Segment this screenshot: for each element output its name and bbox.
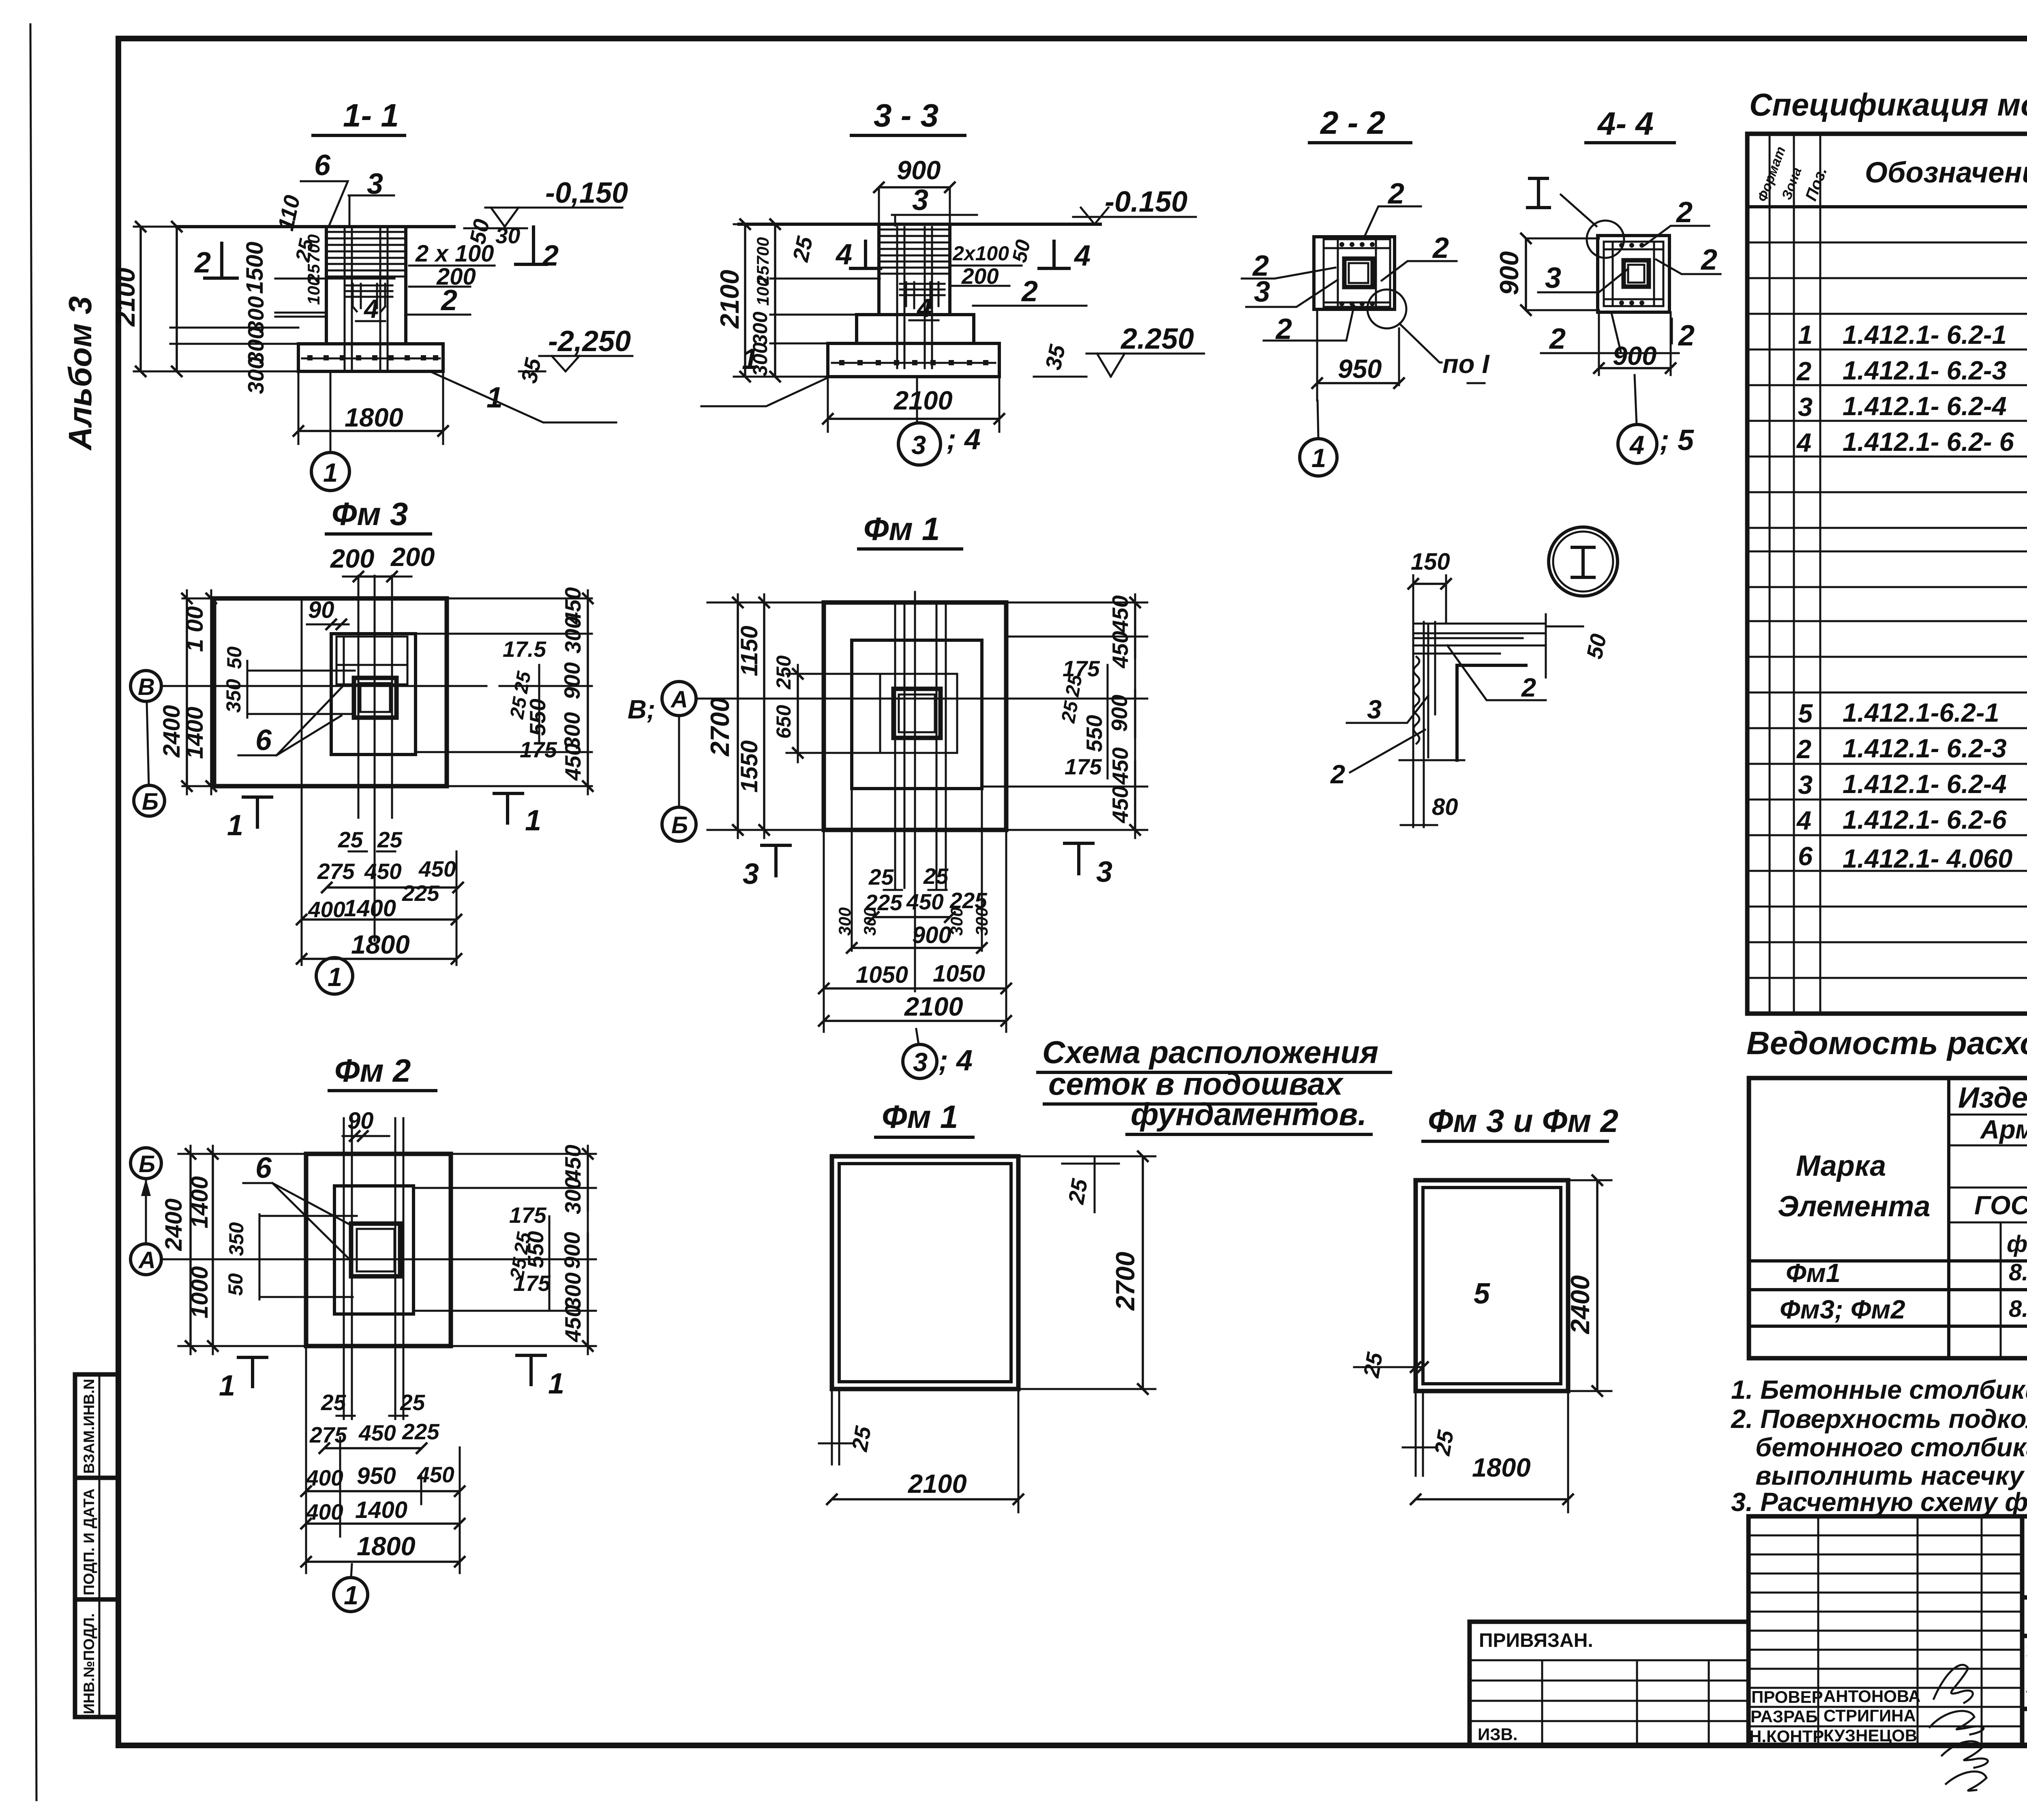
- svg-text:25: 25: [510, 669, 535, 695]
- specification table: [1747, 134, 2027, 1014]
- svg-text:-0.150: -0.150: [1105, 186, 1187, 218]
- svg-text:ф 6: ф 6: [2007, 1231, 2027, 1257]
- mesh C2 horizontals: [327, 232, 405, 277]
- svg-text:2: 2: [1549, 323, 1566, 355]
- left dim chains: [707, 594, 880, 838]
- svg-text:ПОДП. И ДАТА: ПОДП. И ДАТА: [81, 1489, 97, 1596]
- plan FM2: [131, 1053, 596, 1612]
- section 4-4: [1494, 105, 1721, 463]
- svg-text:1800: 1800: [345, 403, 403, 432]
- svg-text:8.4: 8.4: [2009, 1259, 2027, 1286]
- right ext lines: [416, 598, 592, 786]
- svg-text:1: 1: [1798, 320, 1813, 349]
- paper edge line: [30, 24, 36, 1800]
- svg-text:3: 3: [1798, 392, 1813, 422]
- svg-text:25: 25: [338, 827, 364, 852]
- svg-text:700: 700: [753, 237, 772, 266]
- svg-text:300: 300: [749, 311, 771, 345]
- section marks 1: [243, 797, 272, 827]
- mesh layout schema heading: [1038, 1034, 1391, 1134]
- signatures squiggle: [1930, 1665, 1988, 1790]
- svg-text:6: 6: [1798, 841, 1813, 871]
- svg-text:3: 3: [1798, 770, 1813, 800]
- pedestal: [334, 1186, 414, 1314]
- svg-text:5: 5: [1798, 699, 1813, 728]
- svg-text:1.412.1- 6.2-4: 1.412.1- 6.2-4: [1843, 391, 2007, 421]
- svg-text:30: 30: [495, 223, 521, 248]
- svg-text:ИНВ.№ПОДЛ.: ИНВ.№ПОДЛ.: [81, 1613, 97, 1714]
- svg-text:2. Поверхность подколонника в: 2. Поверхность подколонника в месте прим…: [1730, 1404, 2027, 1434]
- svg-text:175: 175: [509, 1203, 547, 1228]
- svg-text:3: 3: [1096, 856, 1112, 888]
- svg-text:Марка: Марка: [1796, 1150, 1886, 1182]
- svg-text:450: 450: [906, 889, 944, 914]
- svg-text:6: 6: [255, 724, 272, 757]
- svg-text:1.412.1- 6.2-4: 1.412.1- 6.2-4: [1843, 769, 2007, 799]
- axis circle 3: [916, 1029, 919, 1044]
- svg-text:2: 2: [194, 247, 211, 279]
- svg-text:350: 350: [222, 679, 245, 713]
- svg-text:по I: по I: [1442, 349, 1490, 379]
- svg-text:АНТОНОВА: АНТОНОВА: [1823, 1687, 1921, 1706]
- bottom dim 1800: [298, 371, 443, 444]
- svg-text:450: 450: [1108, 595, 1133, 633]
- squares: [1598, 236, 1669, 312]
- plan FM1: [628, 511, 1147, 1078]
- axis circle 1: [316, 958, 353, 994]
- svg-text:650: 650: [772, 705, 795, 739]
- footing: [298, 344, 443, 371]
- svg-text:Схема расположения: Схема расположения: [1042, 1034, 1378, 1070]
- svg-text:300: 300: [560, 616, 585, 654]
- title block: privyazan box: [1470, 1622, 1748, 1745]
- svg-text:1400: 1400: [186, 1176, 213, 1228]
- svg-text:25: 25: [321, 1390, 347, 1415]
- dim 25 bottom: [1403, 1391, 1437, 1476]
- svg-text:выполнить насечку глубиной ≥ 5: выполнить насечку глубиной ≥ 5 мм.: [1755, 1461, 2027, 1490]
- cup: [354, 678, 396, 718]
- squiggle hatch on mesh: [1414, 657, 1419, 744]
- svg-text:250: 250: [772, 655, 795, 690]
- svg-text:2х100: 2х100: [952, 242, 1009, 265]
- svg-text:1.412.1- 6.2-1: 1.412.1- 6.2-1: [1843, 320, 2007, 349]
- section 3-3: [701, 97, 1204, 465]
- svg-text:Спецификация монолитных фундам: Спецификация монолитных фундаментов: [1749, 87, 2027, 122]
- svg-text:900: 900: [897, 155, 941, 185]
- svg-text:ПРИВЯЗАН.: ПРИВЯЗАН.: [1479, 1630, 1593, 1651]
- svg-text:-0,150: -0,150: [545, 177, 628, 209]
- svg-text:3: 3: [913, 1047, 928, 1077]
- svg-text:3: 3: [1545, 262, 1561, 294]
- axis circle 1: [330, 373, 332, 452]
- svg-text:1.412.1- 6.2-6: 1.412.1- 6.2-6: [1843, 805, 2007, 834]
- svg-text:2100: 2100: [111, 268, 140, 327]
- stirrup mesh 4: [345, 284, 392, 311]
- svg-text:1400: 1400: [182, 707, 208, 759]
- svg-text:ГОСТ 5781-82: ГОСТ 5781-82: [1974, 1190, 2027, 1220]
- svg-text:Фм1: Фм1: [1786, 1258, 1841, 1288]
- left stamp boxes: [75, 1374, 118, 1717]
- svg-text:Фм 3: Фм 3: [332, 496, 408, 532]
- svg-text:450: 450: [1108, 747, 1133, 785]
- svg-text:900: 900: [1107, 695, 1132, 732]
- node circle with I: [1549, 527, 1618, 596]
- svg-text:300: 300: [243, 357, 268, 394]
- mesh corner detail: [1413, 622, 1435, 760]
- svg-text:1: 1: [328, 962, 342, 992]
- svg-text:450: 450: [560, 1145, 585, 1182]
- cup: [894, 689, 941, 738]
- svg-text:бетонного столбика тщательно о: бетонного столбика тщательно очистить и: [1755, 1432, 2027, 1462]
- svg-text:3: 3: [912, 184, 928, 217]
- axis line: [697, 698, 1086, 700]
- svg-text:Б: Б: [142, 789, 159, 815]
- svg-text:Фм 3 и Фм 2: Фм 3 и Фм 2: [1428, 1103, 1618, 1139]
- svg-text:3: 3: [1367, 695, 1382, 724]
- svg-text:350: 350: [225, 1222, 248, 1256]
- svg-text:25: 25: [1057, 699, 1082, 725]
- svg-text:80: 80: [1432, 794, 1458, 820]
- svg-text:2: 2: [1796, 356, 1811, 386]
- svg-text:550: 550: [523, 1231, 548, 1268]
- svg-text:450: 450: [417, 1462, 454, 1487]
- svg-text:1. Бетонные столбики условно н: 1. Бетонные столбики условно не показаны…: [1731, 1375, 2027, 1404]
- svg-text:50: 50: [223, 646, 246, 669]
- svg-text:400: 400: [306, 1499, 343, 1524]
- svg-text:В: В: [138, 674, 155, 700]
- column: [879, 224, 950, 315]
- svg-text:950: 950: [1338, 354, 1382, 384]
- mesh in pedestal: [336, 637, 407, 684]
- svg-text:4: 4: [835, 238, 852, 271]
- svg-text:1400: 1400: [344, 895, 396, 922]
- svg-text:275: 275: [317, 859, 355, 884]
- svg-text:25: 25: [923, 864, 949, 889]
- dim 50: [1546, 614, 1583, 677]
- svg-text:225: 225: [402, 1419, 440, 1444]
- svg-text:4: 4: [1073, 240, 1091, 272]
- long bar lines: [358, 576, 392, 941]
- svg-text:450: 450: [560, 743, 585, 781]
- svg-text:25: 25: [1358, 1350, 1388, 1380]
- node I detail: [1330, 527, 1618, 827]
- svg-text:6: 6: [255, 1152, 272, 1184]
- pedestal: [331, 634, 416, 755]
- bottom dim 900: [1599, 312, 1671, 375]
- schema FM1: [819, 1099, 1155, 1512]
- svg-text:450: 450: [1108, 786, 1133, 823]
- steel consumption table: [1749, 1078, 2027, 1358]
- svg-text:4: 4: [1796, 428, 1811, 457]
- svg-text:; 4: ; 4: [939, 1044, 973, 1077]
- svg-text:1: 1: [227, 809, 243, 842]
- svg-text:2100: 2100: [904, 992, 963, 1021]
- axis circle 3: [916, 377, 918, 423]
- svg-text:3: 3: [911, 430, 926, 460]
- svg-text:25: 25: [1063, 1177, 1093, 1206]
- svg-text:25: 25: [400, 1390, 426, 1415]
- svg-text:2100: 2100: [715, 270, 744, 329]
- dim 950: [1317, 309, 1399, 401]
- svg-text:1550: 1550: [736, 740, 763, 793]
- ground line: [739, 223, 1100, 226]
- squares plan of column cup: [1314, 237, 1395, 309]
- svg-text:2: 2: [1021, 275, 1038, 308]
- svg-text:900: 900: [912, 922, 951, 948]
- svg-text:ПРОВЕР: ПРОВЕР: [1751, 1687, 1823, 1706]
- svg-text:550: 550: [1082, 715, 1107, 752]
- left dim chains: [178, 1146, 306, 1354]
- section marks 1: [238, 1357, 267, 1387]
- svg-text:1: 1: [219, 1370, 235, 1402]
- svg-text:4: 4: [363, 294, 379, 324]
- svg-text:2: 2: [1387, 178, 1404, 210]
- footing steps: [857, 315, 974, 343]
- axis circle 1: [1318, 401, 1318, 439]
- svg-text:2: 2: [1676, 196, 1693, 229]
- svg-text:3: 3: [743, 858, 759, 890]
- svg-text:Фм 2: Фм 2: [334, 1053, 411, 1089]
- bar lines: [344, 1118, 403, 1419]
- svg-text:25: 25: [847, 1424, 876, 1453]
- I mark: [1528, 178, 1549, 208]
- dim 2100: [1018, 1389, 1020, 1512]
- svg-text:25: 25: [1061, 673, 1086, 699]
- dim 25 left: [1354, 1366, 1423, 1368]
- dim 25 bottom left: [819, 1389, 853, 1464]
- svg-text:1.412.1- 6.2- 6: 1.412.1- 6.2- 6: [1843, 427, 2014, 457]
- svg-text:Н.КОНТР: Н.КОНТР: [1749, 1727, 1824, 1746]
- axis line: [161, 1258, 507, 1260]
- svg-text:2: 2: [1432, 232, 1449, 264]
- svg-text:; 4: ; 4: [947, 423, 981, 456]
- svg-text:200: 200: [330, 544, 374, 573]
- left dim chains: [734, 224, 880, 377]
- svg-text:Альбом 3: Альбом 3: [62, 296, 98, 451]
- right section mark 2: [516, 227, 546, 264]
- right ext and chains: [957, 594, 1147, 838]
- svg-text:2: 2: [1678, 319, 1695, 352]
- axis circles: [131, 671, 161, 701]
- svg-text:2400: 2400: [1565, 1275, 1595, 1335]
- svg-text:1- 1: 1- 1: [343, 97, 399, 133]
- svg-text:100: 100: [304, 277, 323, 305]
- svg-text:2: 2: [1330, 759, 1345, 789]
- plan FM3: [131, 496, 592, 994]
- svg-text:2 - 2: 2 - 2: [1320, 105, 1385, 141]
- svg-text:25: 25: [377, 827, 403, 852]
- svg-text:2: 2: [542, 240, 559, 272]
- svg-text:1800: 1800: [357, 1531, 416, 1561]
- svg-text:Фм 1: Фм 1: [882, 1099, 958, 1135]
- svg-text:1050: 1050: [856, 962, 908, 988]
- svg-text:4: 4: [1796, 806, 1811, 835]
- mesh: [880, 674, 957, 753]
- svg-text:3 - 3: 3 - 3: [874, 97, 939, 133]
- svg-text:8.4: 8.4: [2009, 1296, 2027, 1322]
- svg-text:Б: Б: [139, 1151, 155, 1177]
- svg-text:50: 50: [224, 1273, 247, 1296]
- svg-text:25: 25: [506, 695, 531, 721]
- svg-text:Ведомость расхода стали на эл: Ведомость расхода стали на элемент, кг.: [1746, 1025, 2027, 1061]
- svg-text:400: 400: [306, 1465, 343, 1490]
- svg-text:150: 150: [1411, 549, 1450, 575]
- svg-text:1150: 1150: [736, 626, 763, 676]
- svg-text:Фм3; Фм2: Фм3; Фм2: [1780, 1295, 1905, 1324]
- dim 2400 right: [1568, 1180, 1611, 1391]
- svg-text:900: 900: [559, 662, 585, 699]
- svg-text:6: 6: [314, 149, 331, 182]
- svg-text:900: 900: [1613, 341, 1656, 371]
- svg-text:2100: 2100: [907, 1469, 967, 1498]
- svg-text:2400: 2400: [159, 705, 185, 758]
- svg-text:50: 50: [1008, 238, 1035, 264]
- svg-text:1800: 1800: [351, 930, 410, 959]
- svg-text:1500: 1500: [242, 242, 268, 294]
- left section mark 2: [205, 243, 237, 278]
- title block: revision ladder: [1748, 1516, 2022, 1791]
- svg-text:4: 4: [916, 293, 932, 323]
- section 2-2: [1242, 105, 1490, 476]
- svg-text:2700: 2700: [705, 697, 735, 757]
- svg-text:200: 200: [390, 542, 435, 572]
- svg-text:900: 900: [559, 1232, 585, 1269]
- svg-text:300: 300: [860, 907, 879, 936]
- svg-text:900: 900: [1494, 251, 1524, 295]
- svg-text:Изделия арматурные: Изделия арматурные: [1958, 1082, 2027, 1114]
- svg-text:ИЗВ.: ИЗВ.: [1478, 1725, 1518, 1744]
- svg-text:225: 225: [402, 881, 440, 906]
- stirrup mesh 4: [900, 282, 945, 308]
- svg-text:1.412.1- 4.060: 1.412.1- 4.060: [1843, 844, 2012, 873]
- svg-text:1.412.1- 6.2-3: 1.412.1- 6.2-3: [1843, 733, 2007, 763]
- column walls: [326, 227, 406, 344]
- svg-text:Б: Б: [671, 812, 688, 838]
- svg-text:2.250: 2.250: [1120, 323, 1194, 355]
- svg-text:90: 90: [308, 597, 334, 623]
- section marks 3: [762, 845, 790, 876]
- svg-text:В;: В;: [628, 695, 656, 724]
- pedestal: [852, 640, 982, 789]
- svg-text:300: 300: [560, 1177, 585, 1214]
- axis circle 4: [1635, 375, 1637, 424]
- notes: [1730, 1375, 2027, 1517]
- slab outline: [214, 598, 447, 786]
- svg-text:400: 400: [308, 897, 345, 922]
- svg-text:РАЗРАБ: РАЗРАБ: [1751, 1707, 1818, 1726]
- svg-text:Арматура класса: Арматура класса: [1980, 1115, 2027, 1144]
- section line extensions: [302, 598, 456, 965]
- svg-text:50: 50: [1581, 631, 1611, 661]
- rebar verticals: [345, 229, 388, 370]
- left small dims 50,350: [247, 661, 355, 718]
- svg-text:2700: 2700: [1110, 1252, 1140, 1311]
- 4 markers: [851, 241, 881, 268]
- dim 80: [1401, 760, 1437, 827]
- ground line: [177, 225, 454, 228]
- svg-text:1.412.1- 6.2-3: 1.412.1- 6.2-3: [1843, 356, 2007, 385]
- svg-text:1: 1: [323, 458, 338, 487]
- title block: main right part: [2022, 1516, 2027, 1746]
- svg-text:2: 2: [440, 284, 457, 317]
- svg-text:1: 1: [548, 1368, 564, 1400]
- left dim chains: [134, 227, 302, 371]
- axis circles with arrow: [131, 1148, 161, 1179]
- svg-text:1: 1: [1311, 443, 1326, 473]
- svg-text:; 5: ; 5: [1660, 424, 1694, 457]
- svg-text:100: 100: [753, 277, 772, 306]
- svg-text:А: А: [670, 686, 688, 713]
- dim 2700 right: [1018, 1156, 1155, 1389]
- svg-text:175: 175: [513, 1271, 551, 1296]
- svg-text:Обозначение: Обозначение: [1865, 156, 2027, 189]
- svg-text:А: А: [138, 1247, 156, 1273]
- svg-text:СТРИГИНА: СТРИГИНА: [1823, 1706, 1916, 1725]
- svg-text:Фм 1: Фм 1: [864, 511, 940, 547]
- svg-text:1.412.1-6.2-1: 1.412.1-6.2-1: [1843, 698, 1999, 727]
- bottom dim 2100: [828, 377, 999, 432]
- svg-text:1000: 1000: [186, 1266, 213, 1318]
- section 1-1: [111, 97, 632, 491]
- svg-text:1400: 1400: [355, 1497, 407, 1523]
- svg-text:2400: 2400: [161, 1198, 187, 1251]
- svg-text:4: 4: [1629, 430, 1644, 460]
- svg-text:450: 450: [364, 859, 402, 884]
- svg-text:2100: 2100: [893, 386, 953, 415]
- svg-text:25: 25: [868, 864, 894, 890]
- svg-text:17.5: 17.5: [503, 637, 546, 662]
- svg-text:275: 275: [309, 1422, 347, 1447]
- detail callout circle: [1367, 289, 1406, 328]
- svg-text:1 00: 1 00: [182, 606, 208, 652]
- big callout circle: [1587, 221, 1624, 258]
- svg-text:450: 450: [1108, 631, 1133, 669]
- svg-text:450: 450: [418, 856, 456, 881]
- svg-text:2: 2: [1796, 734, 1811, 764]
- svg-text:300: 300: [560, 1272, 585, 1310]
- svg-text:950: 950: [357, 1463, 396, 1489]
- left dim 900: [1526, 238, 1599, 310]
- svg-text:5: 5: [1474, 1278, 1490, 1310]
- slab: [306, 1154, 451, 1346]
- svg-text:1: 1: [742, 343, 758, 375]
- svg-text:175: 175: [1065, 754, 1102, 779]
- cup: [351, 1224, 400, 1276]
- dim 25 top: [1062, 1156, 1155, 1212]
- svg-text:КУЗНЕЦОВ: КУЗНЕЦОВ: [1823, 1726, 1917, 1745]
- svg-text:1800: 1800: [1472, 1453, 1531, 1482]
- slab: [824, 602, 1006, 830]
- svg-text:450: 450: [560, 1305, 585, 1342]
- svg-text:2: 2: [1700, 244, 1717, 276]
- svg-text:1050: 1050: [933, 960, 985, 987]
- mid level lines: [275, 279, 394, 317]
- svg-text:-2,250: -2,250: [548, 325, 631, 358]
- schema FM3 FM2: [1354, 1103, 1618, 1512]
- svg-text:3: 3: [1254, 276, 1270, 308]
- svg-text:4- 4: 4- 4: [1597, 105, 1654, 141]
- svg-text:Элемента: Элемента: [1778, 1190, 1931, 1223]
- svg-text:450: 450: [358, 1420, 396, 1445]
- svg-text:ВЗАМ.ИНВ.N: ВЗАМ.ИНВ.N: [81, 1379, 97, 1474]
- axis line: [161, 685, 486, 687]
- right ext and chains: [414, 1146, 596, 1354]
- svg-text:1: 1: [525, 804, 541, 837]
- left dim chains: [182, 590, 214, 794]
- svg-text:2: 2: [1521, 673, 1536, 702]
- axis circle 1: [351, 1564, 352, 1578]
- svg-text:25: 25: [1429, 1428, 1459, 1458]
